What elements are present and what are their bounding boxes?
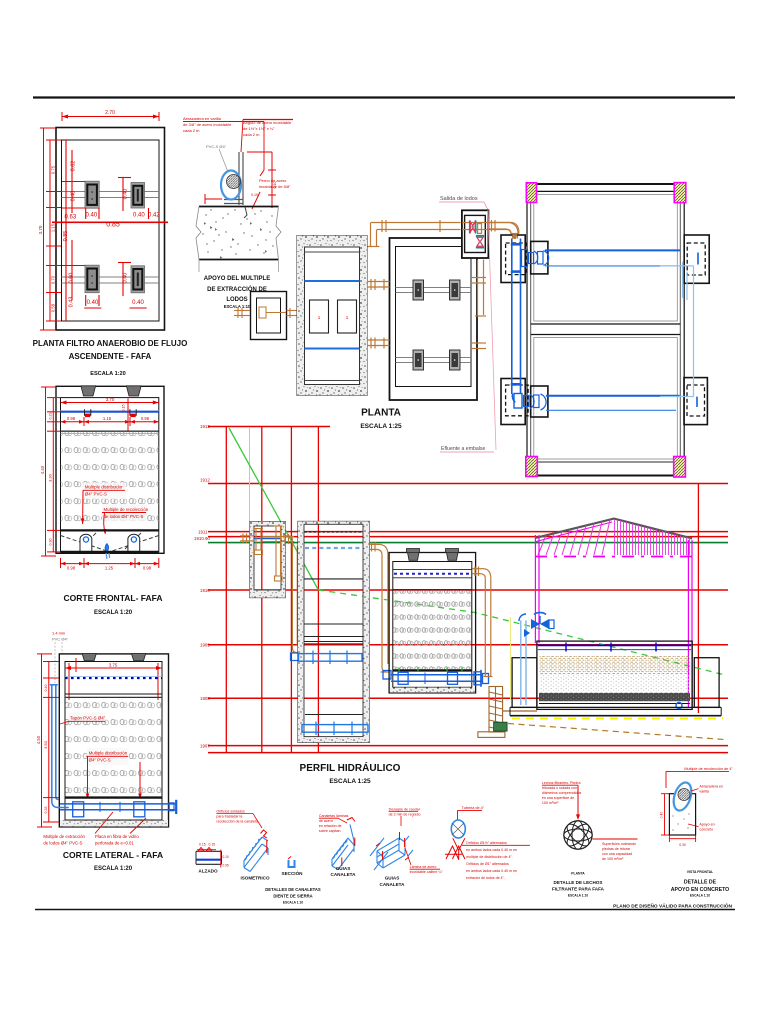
tank A beam lines lower <box>62 276 160 278</box>
roof hatch right (magenta dense) <box>615 519 690 555</box>
corte frontal bottom dims <box>61 558 159 568</box>
red level line 1912 <box>208 483 728 485</box>
svg-text:0.85: 0.85 <box>63 231 69 242</box>
svg-text:SECCIÓN: SECCIÓN <box>282 869 304 876</box>
perfil tall tank outer <box>298 521 369 742</box>
perfil small tank walls <box>250 522 286 598</box>
top cell manifold fittings <box>522 250 549 267</box>
svg-text:en una superficie de: en una superficie de <box>542 796 574 800</box>
apoyo anchor bolt <box>244 207 247 218</box>
svg-text:0.40: 0.40 <box>87 300 99 306</box>
roof hatch left (magenta) <box>538 520 610 555</box>
stub pipe left of box <box>234 308 250 318</box>
apoyo concrete bottom line <box>199 259 279 261</box>
top cell blue lines <box>545 249 680 251</box>
brown dashed diagonal <box>508 724 724 740</box>
weir notch 2 <box>130 409 136 415</box>
big tank blue riser left <box>511 239 522 395</box>
svg-text:PLANTA: PLANTA <box>361 408 401 419</box>
svg-text:de lodos Ø4" PVC-S: de lodos Ø4" PVC-S <box>43 841 82 846</box>
tank A beam lines upper <box>62 191 160 193</box>
svg-text:ESCALA 1:20: ESCALA 1:20 <box>90 371 126 377</box>
magenta band dash line <box>535 556 692 558</box>
corte frontal left dims <box>41 387 60 556</box>
filter sand layer <box>539 656 690 675</box>
tall tank internal lines <box>304 578 363 580</box>
svg-text:Multiple de recolección: Multiple de recolección <box>104 507 149 512</box>
svg-text:Multiple distribución: Multiple distribución <box>89 751 128 756</box>
dim left outer <box>40 128 61 330</box>
svg-text:1.15: 1.15 <box>103 416 112 421</box>
svg-text:perforada de e=0.01: perforada de e=0.01 <box>95 841 134 846</box>
svg-text:Multiple de extracción: Multiple de extracción <box>43 834 85 839</box>
pipe right of FAFA down <box>472 566 492 676</box>
blue drop <box>105 544 108 553</box>
svg-text:Canaletas láminas: Canaletas láminas <box>319 814 349 818</box>
svg-text:Orificios soldados: Orificios soldados <box>216 810 245 814</box>
lateral zone line <box>65 693 162 695</box>
corte frontal red note 1 <box>81 483 126 525</box>
svg-text:PLANTA FILTRO ANAEROBIO DE FLU: PLANTA FILTRO ANAEROBIO DE FLUJO <box>33 339 188 348</box>
tank D bottom line <box>305 380 360 382</box>
column A2 <box>131 183 145 209</box>
svg-text:PVC-S Ø4": PVC-S Ø4" <box>206 144 227 149</box>
tank D chamber rect 2 <box>338 300 357 333</box>
FAFA media fill <box>394 591 472 670</box>
svg-text:DETALLE DE LECHOS: DETALLE DE LECHOS <box>554 880 603 885</box>
lodos extraction box inner <box>257 298 281 333</box>
svg-text:0.30: 0.30 <box>679 843 686 847</box>
apoyo concreto red dims <box>661 794 696 842</box>
green hydraulic gradient dashed <box>318 590 723 675</box>
lateral red dim 3.75 <box>65 663 162 700</box>
connector tank D - tank E upper <box>367 279 390 290</box>
elevation labels <box>194 424 210 748</box>
perfil pipe small->tall tank <box>283 536 298 661</box>
apoyo concreto ellipse pipe <box>670 780 694 813</box>
FAFA bottom thick line <box>393 669 472 671</box>
svg-text:de 2 min de regreso: de 2 min de regreso <box>389 813 421 817</box>
svg-text:triturada o rodada con: triturada o rodada con <box>542 786 577 790</box>
lamina red note <box>405 848 411 865</box>
svg-text:ESCALA 1:25: ESCALA 1:25 <box>360 423 402 430</box>
svg-text:de 3/8" de acero inoxidable: de 3/8" de acero inoxidable <box>183 122 232 127</box>
dark tick top right <box>697 253 699 265</box>
tall tank blue tray upper <box>299 651 363 665</box>
svg-text:Perno de acero: Perno de acero <box>259 178 287 183</box>
svg-text:diámetros comprendidos: diámetros comprendidos <box>542 791 582 795</box>
FAFA green ticks <box>399 668 462 673</box>
svg-text:0.98: 0.98 <box>67 416 76 421</box>
svg-text:3.50: 3.50 <box>43 740 48 749</box>
svg-text:Multiple de recolección de 4": Multiple de recolección de 4" <box>684 767 733 771</box>
tuberia circle <box>451 820 465 838</box>
big tank right wall <box>679 202 681 456</box>
svg-text:0.42: 0.42 <box>148 213 160 219</box>
salida valve 1 (horizontal) <box>469 220 482 233</box>
FAFA inner <box>393 562 472 688</box>
salida box <box>462 210 489 258</box>
svg-text:Ø4" PVC-S: Ø4" PVC-S <box>85 492 107 497</box>
lateral media <box>65 696 161 794</box>
GUIAS 1 red accents <box>342 818 355 867</box>
corner TR <box>674 183 686 203</box>
box inner fitting <box>259 307 266 318</box>
tank D blue line lower <box>305 348 360 350</box>
svg-text:1912: 1912 <box>200 478 210 483</box>
svg-text:en relación de: en relación de <box>319 824 342 828</box>
svg-text:GUIAS: GUIAS <box>336 866 351 871</box>
GUIAS CANALETA 2 drawing <box>370 836 413 870</box>
big tank bottom wall <box>537 461 674 463</box>
svg-text:0.40: 0.40 <box>123 189 129 200</box>
svg-text:3.70: 3.70 <box>38 225 43 234</box>
salida pipe through box <box>462 222 488 224</box>
apoyo pipe ellipse <box>221 171 241 200</box>
drain green fitting <box>494 722 508 731</box>
pipe tall->FAFA top <box>369 542 389 672</box>
tank D top inner line <box>305 251 360 253</box>
top border line <box>33 96 735 98</box>
svg-text:ASCENDENTE - FAFA: ASCENDENTE - FAFA <box>69 352 152 361</box>
ISOMETRICO red accents <box>261 830 268 853</box>
tank A outer wall <box>56 128 165 331</box>
lateral left blue pipe <box>50 685 69 808</box>
tall tank blue tray lower <box>302 722 368 736</box>
red paragraph <box>466 841 517 880</box>
svg-text:FILTRANTE PARA FAFA: FILTRANTE PARA FAFA <box>552 887 605 892</box>
bottom border line <box>35 909 735 911</box>
corte lateral outer <box>59 654 168 827</box>
svg-text:varilla: varilla <box>699 790 708 794</box>
green level line <box>208 542 728 544</box>
red level line 1908 <box>208 697 728 699</box>
lateral media top <box>65 696 162 698</box>
lateral blue dotted level <box>65 677 162 679</box>
filter box outer <box>537 641 692 709</box>
svg-text:ESCALA 1:10: ESCALA 1:10 <box>690 894 710 898</box>
big tank top wall <box>537 183 675 185</box>
svg-text:0.40: 0.40 <box>71 191 77 202</box>
corte frontal blue water line <box>61 411 159 413</box>
svg-text:4.40: 4.40 <box>40 465 45 474</box>
salida valve 2 (vertical) <box>476 235 484 249</box>
svg-text:3.30: 3.30 <box>48 473 53 482</box>
FAFA cap pedestals <box>407 549 420 561</box>
svg-text:APOYO DEL MULTIPLE: APOYO DEL MULTIPLE <box>204 276 270 282</box>
tank D chamber rect 1 <box>310 300 329 333</box>
svg-text:0.98: 0.98 <box>143 566 152 571</box>
corte lateral caps <box>82 654 96 661</box>
svg-text:de lodos Ø4" PVC-S: de lodos Ø4" PVC-S <box>104 514 144 519</box>
svg-text:0.63: 0.63 <box>65 215 77 221</box>
side box BR <box>684 378 707 425</box>
svg-text:de 1½"x 1½" x ¼": de 1½"x 1½" x ¼" <box>243 126 275 131</box>
svg-text:1.15: 1.15 <box>51 223 56 232</box>
svg-text:0.98: 0.98 <box>141 416 150 421</box>
green hydraulic gradient solid <box>229 428 318 590</box>
svg-text:1.25: 1.25 <box>105 566 114 571</box>
corte frontal caps <box>81 386 96 396</box>
corner TL <box>526 183 536 203</box>
svg-text:0.40: 0.40 <box>133 213 145 219</box>
FAFA blue manifold <box>391 670 489 687</box>
apoyo bracket angle <box>224 152 243 205</box>
svg-text:0.10: 0.10 <box>223 855 229 859</box>
corte frontal outer <box>56 386 164 553</box>
svg-text:para trasladar la: para trasladar la <box>216 815 242 819</box>
corte frontal media bottom thick <box>61 529 159 531</box>
tank D blue line upper <box>305 280 360 282</box>
svg-text:3.75: 3.75 <box>109 662 118 667</box>
pipe: salida box to big tank <box>488 223 520 239</box>
svg-text:ESCALA 1:10: ESCALA 1:10 <box>568 894 588 898</box>
svg-text:0.23: 0.23 <box>49 413 53 420</box>
dark tick bottom right <box>696 397 698 407</box>
svg-text:0.43: 0.43 <box>69 297 75 308</box>
svg-text:piedras de triturar: piedras de triturar <box>602 847 631 851</box>
apoyo red dims <box>205 152 276 209</box>
house column left magenta <box>534 535 536 643</box>
filter side box right <box>694 658 719 708</box>
yellow dashed baseline <box>512 718 723 720</box>
tall tank lower line <box>305 714 363 716</box>
GUIAS 2 red accents <box>376 832 409 860</box>
tank D wall stipple band <box>297 236 367 396</box>
lateral red note 2 <box>86 748 142 799</box>
svg-text:Efluente a embalse: Efluente a embalse <box>441 446 486 452</box>
bottom cell blue lines <box>546 395 680 397</box>
svg-text:con una capacidad: con una capacidad <box>602 852 632 856</box>
svg-text:0.58: 0.58 <box>51 303 56 312</box>
svg-text:DETALLES DE CANALETAS: DETALLES DE CANALETAS <box>265 887 321 892</box>
apoyo extension lines <box>198 260 200 273</box>
FAFA bottom stipple band <box>390 688 475 693</box>
svg-text:0.33: 0.33 <box>44 807 48 814</box>
base slab <box>510 706 721 708</box>
red level line 1910.90 <box>208 536 728 538</box>
corte lateral inner <box>65 662 162 823</box>
filter blue drain ball <box>676 703 682 709</box>
svg-text:Superficies rodeando: Superficies rodeando <box>602 842 636 846</box>
svg-text:cada 2 m: cada 2 m <box>183 128 200 133</box>
tank E inner <box>396 247 472 387</box>
pale orange drop line <box>249 428 251 521</box>
drain structure below FAFA right <box>478 687 505 738</box>
red vertical grid lines <box>225 427 227 753</box>
svg-text:0.15: 0.15 <box>122 405 126 412</box>
svg-text:0.40: 0.40 <box>132 300 144 306</box>
column A3 <box>85 265 99 293</box>
svg-text:ESCALA 1:20: ESCALA 1:20 <box>94 610 133 616</box>
svg-text:1910.90: 1910.90 <box>194 536 210 541</box>
hopper box 1 <box>80 534 92 552</box>
svg-text:0.60: 0.60 <box>69 273 75 284</box>
corte frontal media top <box>61 430 159 432</box>
FAFA media top line <box>393 589 472 591</box>
svg-text:CORTE LATERAL - FAFA: CORTE LATERAL - FAFA <box>63 850 163 860</box>
lateral blue manifold <box>60 800 177 817</box>
svg-text:Abrazadera en varilla: Abrazadera en varilla <box>183 116 222 121</box>
svg-text:2.70: 2.70 <box>105 110 115 116</box>
svg-text:APOYO EN CONCRETO: APOYO EN CONCRETO <box>671 887 729 893</box>
red level line 1910 <box>208 589 728 591</box>
corte frontal red dim 2.70 <box>61 401 159 405</box>
pipe: top horizontal to salida box <box>371 220 461 232</box>
svg-text:CORTE FRONTAL- FAFA: CORTE FRONTAL- FAFA <box>64 593 163 603</box>
svg-text:4.50: 4.50 <box>36 735 41 744</box>
svg-text:Salida de lodos: Salida de lodos <box>440 196 478 202</box>
house column right magenta <box>687 540 689 707</box>
dim top 2.70 <box>62 112 159 121</box>
svg-text:Ø4" PVC-S: Ø4" PVC-S <box>89 758 111 763</box>
svg-text:VISTA FRONTAL: VISTA FRONTAL <box>687 870 714 874</box>
filter blue ticks <box>565 643 567 652</box>
svg-text:Abrazadera en: Abrazadera en <box>699 785 723 789</box>
tank E column 4 <box>450 350 461 370</box>
svg-text:Orificios Ø1½" alternados: Orificios Ø1½" alternados <box>466 841 507 845</box>
corte frontal red note 2 <box>102 505 149 535</box>
apoyo break marks <box>196 207 201 260</box>
tuberia red V <box>445 838 465 860</box>
svg-text:0.85: 0.85 <box>106 222 120 229</box>
svg-text:de 100 m²/m³: de 100 m²/m³ <box>602 857 624 861</box>
svg-text:0.70: 0.70 <box>51 275 56 284</box>
svg-text:en ambos lados cada 0.40 m en: en ambos lados cada 0.40 m en <box>466 869 517 873</box>
svg-text:LODOS: LODOS <box>226 297 247 303</box>
side box TL <box>501 235 548 283</box>
svg-text:inoxidable de 5/8": inoxidable de 5/8" <box>259 184 291 189</box>
perfil small tank internal pipes <box>254 526 294 581</box>
lateral bottom band <box>60 820 168 827</box>
tank E column 3 <box>413 350 424 370</box>
dim inner verticals <box>52 140 168 321</box>
svg-text:0.75: 0.75 <box>51 165 56 174</box>
ISOMETRICO drawing <box>244 837 268 872</box>
svg-text:0.15: 0.15 <box>209 843 216 847</box>
svg-text:Tapón PVC-S Ø4": Tapón PVC-S Ø4" <box>70 716 106 721</box>
perfil small tank outer <box>250 522 285 598</box>
hopper diagonals <box>61 533 159 551</box>
tall tank blue dashed level <box>305 547 363 549</box>
tank A inner wall <box>62 140 160 321</box>
apoyo concreto block <box>669 794 695 835</box>
connector tank D - tank E lower <box>367 338 390 349</box>
svg-text:PERFIL HIDRÁULICO: PERFIL HIDRÁULICO <box>300 761 401 774</box>
red level line 1911 <box>208 531 728 533</box>
big tank inner cell lines <box>534 195 678 322</box>
lateral red note 1 <box>60 713 106 725</box>
svg-text:extractor de lodos de 4".: extractor de lodos de 4". <box>466 876 505 880</box>
filter grey layer <box>539 674 690 693</box>
stub pipe box to tank D <box>287 308 298 318</box>
ALZADO detail <box>196 843 229 874</box>
svg-text:ESCALA 1:10: ESCALA 1:10 <box>224 304 251 309</box>
corte frontal inner <box>61 398 159 552</box>
pipe: vertical right of tank E <box>472 260 486 349</box>
big tank left wall <box>526 202 528 456</box>
perfil tall tank walls stipple <box>298 521 369 742</box>
svg-text:Placa en fibra de vidrio: Placa en fibra de vidrio <box>95 834 139 839</box>
svg-text:Lámina de acero: Lámina de acero <box>410 865 437 869</box>
FAFA left blue fitting <box>383 671 391 680</box>
svg-text:de acero: de acero <box>319 819 333 823</box>
svg-text:0.98: 0.98 <box>67 566 76 571</box>
efluente red leader <box>488 210 496 450</box>
svg-text:Orificios de Ø1" alternados: Orificios de Ø1" alternados <box>466 862 509 866</box>
flower rosette <box>564 821 593 850</box>
svg-text:sobre capitan: sobre capitan <box>319 829 341 833</box>
big tank mid divider <box>531 323 681 325</box>
svg-text:Tuberia de 4": Tuberia de 4" <box>462 806 485 810</box>
corte frontal dim row 2 <box>61 417 159 426</box>
column A4 <box>131 266 145 293</box>
svg-text:ESCALA 1:10: ESCALA 1:10 <box>283 901 303 905</box>
corte frontal bottom thick <box>61 551 159 553</box>
roof magenta slope line left <box>536 522 612 542</box>
tank E column 2 <box>450 280 461 300</box>
lateral left red dims <box>37 654 76 827</box>
svg-text:0.05: 0.05 <box>223 864 229 868</box>
svg-text:ALZADO: ALZADO <box>198 869 218 874</box>
lodos extraction box outer <box>251 292 287 340</box>
valve assembly at filter inlet <box>519 613 554 705</box>
hopper box 2 <box>128 534 140 552</box>
perfil small tank blue level <box>254 538 281 540</box>
perfil FAFA tank outer <box>389 553 476 693</box>
pipe: vertical into tank D <box>368 223 380 247</box>
brown connector at 711 <box>503 710 537 712</box>
tank E beams upper <box>396 287 472 289</box>
svg-text:concreto: concreto <box>699 828 713 832</box>
weir notch 1 <box>85 409 91 415</box>
svg-text:PLANTA: PLANTA <box>571 872 585 876</box>
svg-text:inoxidable calibre ¼": inoxidable calibre ¼" <box>410 870 444 874</box>
svg-text:multiple de distribución de 4": multiple de distribución de 4". <box>466 855 513 859</box>
svg-text:100 m²/m³: 100 m²/m³ <box>542 801 559 805</box>
filter side box left <box>512 658 537 708</box>
svg-text:ESCALA 1:25: ESCALA 1:25 <box>329 778 371 785</box>
svg-text:3.70: 3.70 <box>106 397 115 402</box>
tank E column 1 <box>413 280 424 300</box>
column A1 <box>85 181 99 208</box>
svg-text:0.62: 0.62 <box>71 161 77 172</box>
svg-text:Multiple distribuidor: Multiple distribuidor <box>85 485 123 490</box>
svg-text:cada 2 m: cada 2 m <box>243 132 260 137</box>
red level line 1907 <box>208 745 728 747</box>
svg-text:Apoyo en: Apoyo en <box>699 823 714 827</box>
filter top blue lines <box>538 644 691 646</box>
svg-text:PVC Ø4": PVC Ø4" <box>52 637 69 642</box>
apoyo pipe hatch core <box>227 175 241 189</box>
perfil small tank inlet stub <box>240 534 254 544</box>
corte frontal media <box>61 432 159 530</box>
inlet pipe orange to big tank <box>488 220 518 239</box>
svg-text:0.40: 0.40 <box>86 213 98 219</box>
lateral bottom thick line <box>65 796 162 798</box>
svg-text:1911: 1911 <box>198 530 208 535</box>
svg-text:GUIAS: GUIAS <box>385 876 400 881</box>
filter bottom line <box>539 703 690 705</box>
svg-text:Angulo de acero inoxidable: Angulo de acero inoxidable <box>243 120 292 125</box>
filter gravel dark layer <box>539 693 690 701</box>
svg-text:0.40: 0.40 <box>44 685 48 692</box>
FAFA top lines + blue dashes <box>393 569 472 571</box>
SECCION detail <box>282 857 304 877</box>
svg-text:1.4 min: 1.4 min <box>52 631 65 636</box>
svg-text:0.40: 0.40 <box>123 273 129 284</box>
corner BL <box>526 457 538 477</box>
